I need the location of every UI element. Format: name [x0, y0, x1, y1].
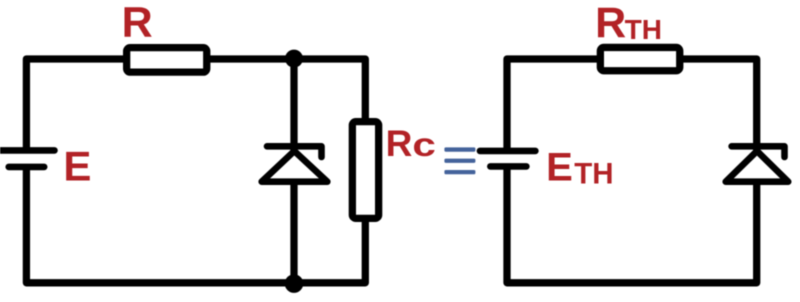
- svg-text:E: E: [63, 142, 91, 189]
- battery ETH short plate: [490, 163, 526, 170]
- battery ETH long plate: [480, 148, 536, 155]
- resistor R body: [127, 48, 207, 73]
- right circuit outer wire loop: [507, 59, 757, 283]
- svg-text:R: R: [122, 0, 153, 46]
- resistor RTH body: [600, 47, 679, 70]
- label Rc: [386, 123, 436, 164]
- battery E short plate: [9, 164, 45, 171]
- label R: [122, 0, 153, 46]
- label E: [63, 142, 91, 189]
- svg-text:R: R: [386, 123, 413, 164]
- zener diode D2 triangle (anode): [726, 151, 789, 182]
- zener diode D1 triangle (anode): [262, 151, 328, 182]
- node junction dot top: [285, 50, 303, 68]
- battery E long plate: [0, 147, 55, 154]
- left circuit outer wire loop: [26, 59, 365, 283]
- svg-text:ETH: ETH: [546, 145, 614, 190]
- wire middle branch (diode branch): [290, 59, 297, 283]
- zener diode D1 cathode bar with zener tail: [267, 146, 322, 157]
- node junction dot bottom: [285, 274, 304, 293]
- label ETH: [546, 145, 614, 190]
- zener diode D2 cathode bar with zener tail: [732, 146, 785, 157]
- svg-text:RTH: RTH: [595, 0, 662, 47]
- label RTH: [595, 0, 662, 47]
- svg-text:c: c: [412, 127, 435, 164]
- resistor Rc body: [352, 122, 378, 219]
- equivalence symbol (triple bar): [444, 147, 475, 174]
